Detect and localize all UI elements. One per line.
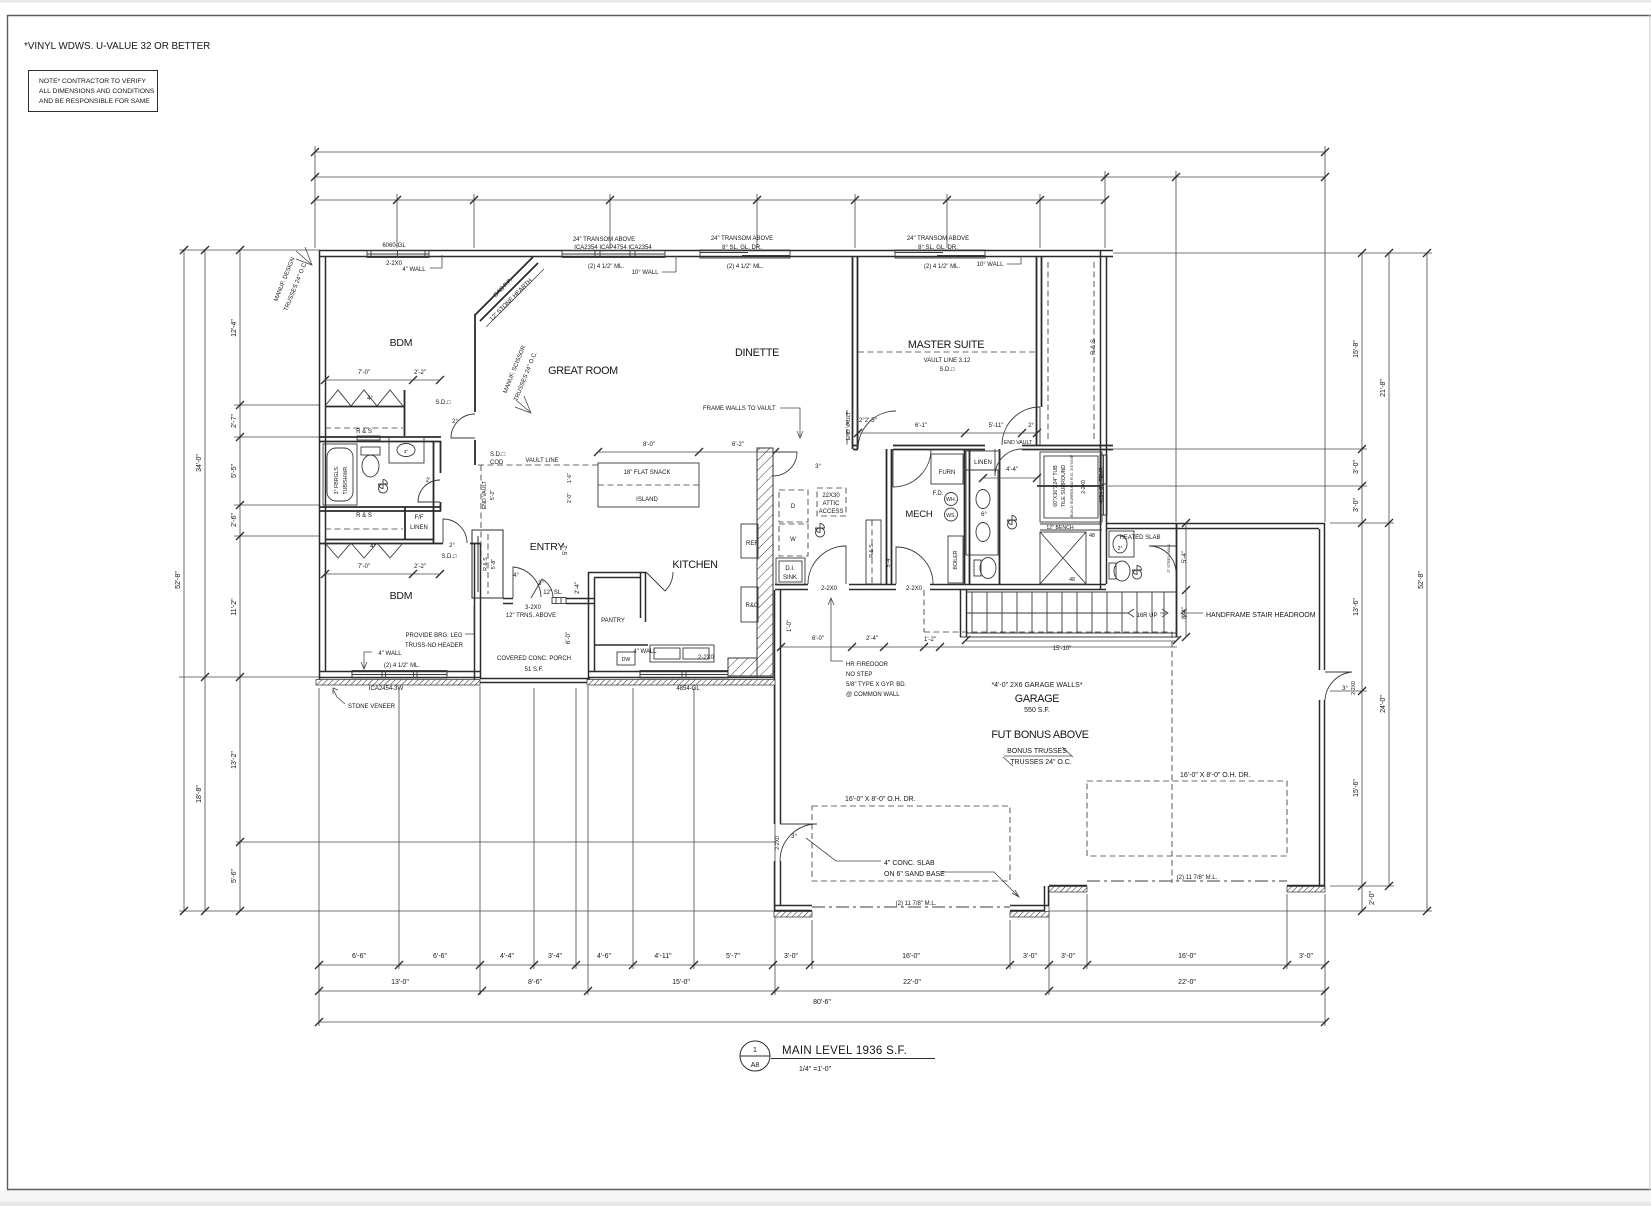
svg-text:12" TRNS. ABOVE: 12" TRNS. ABOVE	[506, 613, 556, 619]
heated slab door	[1149, 546, 1176, 573]
svg-text:ATTIC: ATTIC	[823, 501, 841, 507]
svg-text:AND BE RESPONSIBLE FOR SAME: AND BE RESPONSIBLE FOR SAME	[39, 98, 150, 105]
svg-text:2'-0": 2'-0"	[1369, 891, 1376, 905]
master tub	[1040, 452, 1102, 522]
svg-text:12'-4": 12'-4"	[231, 319, 238, 337]
mech furnace	[931, 454, 963, 484]
svg-text:KITCHEN: KITCHEN	[672, 559, 717, 571]
svg-text:8° SL. GL. DR.: 8° SL. GL. DR.	[722, 245, 762, 251]
svg-text:STONE VENEER: STONE VENEER	[348, 704, 396, 710]
svg-text:3'-4": 3'-4"	[548, 953, 562, 960]
master suite east wall (to closet)	[1037, 257, 1042, 446]
svg-text:D.I.: D.I.	[785, 566, 795, 572]
stairs east edge	[1176, 590, 1178, 637]
svg-text:51 S.F.: 51 S.F.	[525, 667, 544, 673]
svg-text:4'-4": 4'-4"	[1006, 467, 1018, 473]
master shower	[1040, 532, 1086, 584]
svg-text:4854-GL: 4854-GL	[676, 686, 700, 692]
svg-text:3-2X0: 3-2X0	[525, 605, 542, 611]
master vault line	[858, 351, 1037, 353]
svg-text:34'-0": 34'-0"	[196, 454, 203, 472]
svg-text:WS.: WS.	[946, 513, 956, 519]
entry closet	[472, 530, 503, 598]
svg-text:W: W	[790, 537, 796, 543]
svg-text:2°: 2°	[1118, 546, 1123, 552]
svg-text:ALL DIMENSIONS AND CONDITIONS: ALL DIMENSIONS AND CONDITIONS	[39, 88, 155, 95]
svg-text:2'-4": 2'-4"	[575, 582, 581, 594]
svg-text:15'-0": 15'-0"	[672, 979, 690, 986]
svg-text:ISLAND: ISLAND	[636, 497, 658, 503]
porch slab front edge	[480, 679, 590, 683]
svg-text:1'-2": 1'-2"	[924, 637, 936, 643]
bdm1 window 6060-GL	[367, 251, 429, 258]
fireplace diagonal	[475, 257, 538, 321]
kitchen hall door (dinette to hall)	[773, 452, 797, 476]
kitchen south wall	[588, 672, 775, 678]
truss dir symbol garage	[1003, 747, 1073, 766]
provide brg leader	[465, 606, 474, 634]
dim labels: bottom rows	[352, 953, 1313, 1006]
svg-text:BONUS TRUSSES: BONUS TRUSSES	[1007, 748, 1067, 755]
svg-text:5'-2": 5'-2"	[490, 490, 496, 500]
svg-text:2° STEEL WALL: 2° STEEL WALL	[1166, 543, 1171, 573]
svg-text:MASTER SUITE: MASTER SUITE	[908, 339, 984, 351]
master suite west wall	[853, 257, 858, 449]
svg-text:LINEN: LINEN	[410, 525, 428, 531]
svg-text:PANTRY: PANTRY	[601, 618, 625, 624]
svg-text:3°: 3°	[1342, 686, 1348, 692]
svg-text:2-2X0: 2-2X0	[698, 655, 715, 661]
garage mid stub step	[1010, 886, 1049, 911]
master closet door	[1002, 407, 1040, 445]
svg-text:18" FLAT SNACK: 18" FLAT SNACK	[624, 470, 671, 476]
great room vault line	[478, 464, 598, 466]
svg-text:END VAULT: END VAULT	[846, 411, 852, 440]
mech doors on common wall	[808, 546, 846, 584]
bdm1 / great room wall	[474, 314, 476, 412]
svg-text:R & S: R & S	[483, 557, 489, 571]
svg-text:6'-6": 6'-6"	[433, 953, 447, 960]
svg-text:3°: 3°	[404, 449, 409, 455]
svg-text:GARAGE: GARAGE	[1015, 693, 1059, 705]
svg-text:16R UP: 16R UP	[1136, 613, 1157, 619]
pantry door	[646, 572, 673, 591]
svg-text:HEATED SLAB: HEATED SLAB	[1120, 535, 1161, 541]
great room triple window	[562, 251, 665, 258]
svg-text:3'-0": 3'-0"	[1353, 460, 1360, 474]
entry south wall w/ door opening	[503, 599, 594, 604]
kitchen counters: REF / R&O	[741, 524, 758, 558]
contractor note box	[29, 71, 158, 112]
svg-text:*4'-0" 2X6 GARAGE WALLS*: *4'-0" 2X6 GARAGE WALLS*	[991, 682, 1082, 689]
4" wall leader bdm1 top	[430, 255, 442, 268]
master wc toilet	[980, 558, 996, 579]
bath1 tub	[323, 444, 357, 505]
master suite door	[858, 411, 896, 449]
svg-text:5'-2": 5'-2"	[563, 543, 569, 555]
svg-text:NOTE* CONTRACTOR TO VERIFY: NOTE* CONTRACTOR TO VERIFY	[39, 78, 147, 85]
svg-text:FRAME WALLS TO VAULT: FRAME WALLS TO VAULT	[703, 406, 776, 412]
svg-text:1'-6": 1'-6"	[567, 473, 573, 483]
heated slab shower pan + toilet	[1109, 531, 1134, 557]
svg-text:BOILER: BOILER	[953, 550, 959, 569]
stone veneer arrow	[333, 688, 345, 704]
svg-text:2'-2": 2'-2"	[414, 370, 426, 376]
svg-text:TRUSSES 24" O.C.: TRUSSES 24" O.C.	[1010, 759, 1072, 766]
bdm2 bifold closet doors	[325, 543, 403, 558]
R&S hall closet box	[866, 520, 881, 584]
svg-text:5'-5": 5'-5"	[231, 464, 238, 478]
svg-text:SINK: SINK	[783, 575, 797, 581]
f/f linen closet	[405, 441, 434, 543]
svg-text:R & S: R & S	[356, 513, 372, 519]
svg-text:12" SL.: 12" SL.	[543, 590, 563, 596]
svg-text:5'-8": 5'-8"	[491, 559, 497, 569]
svg-text:2': 2'	[426, 478, 430, 484]
svg-text:(2) 11 7/8" M.L.: (2) 11 7/8" M.L.	[896, 901, 937, 907]
left dim lines	[183, 250, 185, 911]
svg-text:(2) 4 1/2" ML.: (2) 4 1/2" ML.	[384, 663, 420, 669]
west wall	[320, 250, 326, 684]
svg-text:16'-0": 16'-0"	[902, 953, 920, 960]
4" wall bdm2 leader w/ arrow	[361, 652, 372, 669]
bdm1 bifold closet doors	[325, 390, 403, 406]
svg-text:3'-0": 3'-0"	[1353, 498, 1360, 512]
svg-text:ENTRY: ENTRY	[530, 541, 565, 553]
svg-text:52'-8": 52'-8"	[1418, 571, 1425, 589]
D/W appliances	[779, 490, 808, 522]
svg-text:13'-2": 13'-2"	[231, 751, 238, 769]
garage front left jog	[775, 906, 812, 911]
svg-text:FURN: FURN	[939, 470, 956, 476]
svg-text:2'-7": 2'-7"	[231, 414, 238, 428]
svg-text:48: 48	[1089, 533, 1095, 539]
svg-text:4054-GL-TEMP.: 4054-GL-TEMP.	[1099, 466, 1105, 503]
svg-text:2-2X0: 2-2X0	[906, 586, 923, 592]
svg-text:24" TRANSOM ABOVE: 24" TRANSOM ABOVE	[573, 237, 635, 243]
bench line	[1040, 524, 1102, 530]
svg-text:3°: 3°	[538, 581, 544, 587]
pantry top + east walls	[588, 572, 648, 645]
svg-text:4" WALL: 4" WALL	[402, 267, 426, 273]
svg-text:6060-GL: 6060-GL	[382, 243, 406, 249]
bath south wall	[319, 507, 441, 511]
svg-text:4" WALL: 4" WALL	[378, 651, 402, 657]
svg-text:15'-6": 15'-6"	[1353, 779, 1360, 797]
svg-text:TILE SURROUND: TILE SURROUND	[1061, 465, 1067, 508]
garage north wall	[1106, 524, 1325, 529]
rotated small texts	[273, 257, 1357, 850]
svg-text:5'-11": 5'-11"	[989, 423, 1004, 429]
svg-text:4" WALL: 4" WALL	[633, 649, 657, 655]
svg-text:@ COMMON WALL: @ COMMON WALL	[846, 692, 900, 698]
svg-text:BUILD SURROUND R.O. 3'4"X5'8": BUILD SURROUND R.O. 3'4"X5'8"	[1069, 454, 1074, 517]
bdm1 closet	[325, 406, 405, 408]
bottom extension verticals	[318, 688, 320, 1026]
svg-text:5/8" TYPE X GYP. BD.: 5/8" TYPE X GYP. BD.	[846, 682, 907, 688]
dim labels: left cols (rotated)	[175, 319, 238, 883]
left wing south wall	[319, 672, 480, 678]
svg-text:1: 1	[753, 1047, 757, 1054]
svg-text:8'-0": 8'-0"	[643, 442, 655, 448]
svg-text:6'-1": 6'-1"	[915, 423, 927, 429]
svg-text:7'-0": 7'-0"	[358, 370, 370, 376]
bath mid wall	[1037, 485, 1100, 487]
svg-text:1/4" =1'-0": 1/4" =1'-0"	[799, 1066, 832, 1073]
svg-text:8'-4": 8'-4"	[1182, 607, 1188, 619]
svg-text:R & S: R & S	[356, 429, 372, 435]
gas fp hearth line	[486, 269, 544, 327]
svg-text:4°: 4°	[370, 544, 376, 550]
svg-text:ACCESS: ACCESS	[819, 509, 844, 515]
svg-text:18'-8": 18'-8"	[196, 785, 203, 803]
svg-text:3°: 3°	[791, 834, 797, 840]
svg-text:24'-0": 24'-0"	[1380, 695, 1387, 713]
svg-text:4'-11": 4'-11"	[654, 953, 672, 960]
svg-text:7'-0": 7'-0"	[358, 564, 370, 570]
bonus outline	[924, 590, 1172, 883]
svg-text:HANDFRAME STAIR HEADROOM: HANDFRAME STAIR HEADROOM	[1206, 612, 1316, 619]
svg-text:COVERED CONC. PORCH: COVERED CONC. PORCH	[497, 656, 571, 662]
manuf scissor truss arrow	[515, 396, 531, 413]
svg-text:REF: REF	[746, 541, 758, 547]
dinette sliding door	[700, 250, 790, 258]
svg-text:BDM: BDM	[390, 590, 413, 602]
svg-text:52'-8": 52'-8"	[175, 571, 182, 589]
entry front doors	[513, 567, 553, 598]
svg-text:11'-2": 11'-2"	[231, 598, 238, 616]
pantry / kitchen west wall	[589, 572, 595, 684]
svg-text:2'-6": 2'-6"	[231, 513, 238, 527]
slab dash-dot lines	[812, 881, 1287, 907]
svg-text:2-2X0: 2-2X0	[1351, 681, 1357, 695]
svg-text:60"X36"X24" TUB: 60"X36"X24" TUB	[1053, 465, 1059, 507]
east exterior wall (master suite/bath)	[1101, 250, 1107, 590]
svg-text:(2) 4 1/2" ML.: (2) 4 1/2" ML.	[588, 264, 624, 270]
svg-text:2°: 2°	[449, 543, 455, 549]
mech west wall	[887, 449, 892, 584]
end vault dash	[480, 465, 482, 567]
4" conc slab leaders	[806, 838, 881, 861]
svg-text:(2) 11 7/8" M.L.: (2) 11 7/8" M.L.	[1177, 875, 1218, 881]
svg-text:16'-0" X 8'-0" O.H. DR.: 16'-0" X 8'-0" O.H. DR.	[845, 796, 916, 803]
svg-text:10° WALL: 10° WALL	[977, 262, 1005, 268]
hall west wall / bath east	[440, 441, 442, 511]
garage right-bay front stubs	[1049, 886, 1325, 891]
frame walls to vault leader	[780, 408, 803, 438]
left extension horizontals	[179, 249, 319, 251]
svg-text:WH.: WH.	[946, 497, 956, 503]
attic access	[817, 488, 846, 516]
svg-text:2-2X0: 2-2X0	[821, 586, 838, 592]
svg-text:2-2X0: 2-2X0	[1081, 480, 1087, 494]
svg-text:13'-6": 13'-6"	[1353, 598, 1360, 616]
svg-text:NO STEP: NO STEP	[846, 672, 872, 678]
top dim lines	[315, 151, 1325, 153]
svg-text:LINEN: LINEN	[974, 460, 992, 466]
svg-text:4'-4": 4'-4"	[500, 953, 514, 960]
svg-text:22'-0": 22'-0"	[903, 979, 921, 986]
svg-text:24" TRANSOM ABOVE: 24" TRANSOM ABOVE	[907, 236, 969, 242]
manuf design truss arrows bdm1	[296, 247, 312, 265]
svg-text:2°: 2°	[452, 419, 458, 425]
stone veneer sills	[316, 680, 1325, 918]
svg-text:4" CONC. SLAB: 4" CONC. SLAB	[884, 860, 935, 867]
svg-text:S.D.□: S.D.□	[490, 452, 506, 458]
svg-text:3'-0": 3'-0"	[784, 953, 798, 960]
svg-text:8'-6": 8'-6"	[528, 979, 542, 986]
svg-text:1'-0": 1'-0"	[787, 620, 793, 632]
10 wall leader master	[1007, 256, 1021, 264]
handframe leader	[1181, 609, 1203, 617]
garage rear door (east)	[1325, 672, 1352, 700]
closet rods	[325, 427, 403, 429]
kitchen south window 4854-GL	[640, 671, 728, 679]
svg-text:4°: 4°	[367, 396, 373, 402]
svg-text:F/F: F/F	[415, 515, 424, 521]
bath door	[418, 480, 440, 502]
10 wall leader greatroom	[662, 256, 676, 272]
island	[598, 463, 699, 507]
svg-text:80'-6": 80'-6"	[813, 999, 831, 1006]
svg-text:A8: A8	[751, 1062, 760, 1069]
D.I. SINK box	[776, 558, 805, 585]
svg-text:22'-0": 22'-0"	[1178, 979, 1196, 986]
svg-text:5'-7": 5'-7"	[726, 953, 740, 960]
svg-text:3° FBRGLS.: 3° FBRGLS.	[334, 466, 340, 495]
svg-text:FUT BONUS ABOVE: FUT BONUS ABOVE	[991, 729, 1088, 741]
svg-text:16'-0" X 8'-0" O.H. DR.: 16'-0" X 8'-0" O.H. DR.	[1180, 772, 1251, 779]
svg-text:48: 48	[1069, 577, 1075, 583]
svg-text:GREAT ROOM: GREAT ROOM	[548, 365, 618, 377]
garage doors	[812, 806, 1010, 881]
garage west wall	[775, 590, 781, 911]
stair west wall	[961, 590, 967, 637]
svg-text:5'-6": 5'-6"	[231, 869, 238, 883]
svg-text:8° SL. GL. DR.: 8° SL. GL. DR.	[918, 245, 958, 251]
svg-text:5'-4": 5'-4"	[1182, 551, 1188, 563]
svg-text:S.D.□: S.D.□	[441, 554, 457, 560]
svg-text:6'-0": 6'-0"	[566, 632, 572, 644]
svg-text:12" BENCH: 12" BENCH	[1046, 525, 1073, 531]
svg-text:END VAULT: END VAULT	[482, 480, 488, 509]
svg-text:BDM: BDM	[390, 337, 413, 349]
svg-text:2-2X0: 2-2X0	[386, 261, 403, 267]
svg-text:ICA2454-3W: ICA2454-3W	[369, 686, 404, 692]
bdm2 south windows ICA2454-3W	[352, 671, 447, 679]
hr firedoor arrow	[828, 598, 843, 661]
16R UP arrow	[1160, 609, 1168, 617]
svg-text:4°: 4°	[513, 573, 519, 579]
svg-text:24" TRANSOM ABOVE: 24" TRANSOM ABOVE	[711, 236, 773, 242]
floor drain symbols	[379, 480, 388, 493]
svg-text:10° WALL: 10° WALL	[632, 270, 660, 276]
svg-text:6'-2": 6'-2"	[732, 442, 744, 448]
svg-text:S.D.□: S.D.□	[435, 400, 451, 406]
svg-text:16'-0": 16'-0"	[1178, 953, 1196, 960]
svg-text:21'-8": 21'-8"	[1380, 379, 1387, 397]
bath1 toilet	[361, 447, 380, 455]
master sliding door	[895, 250, 985, 258]
svg-text:3°: 3°	[815, 464, 821, 470]
svg-text:3'-0": 3'-0"	[1023, 953, 1037, 960]
kitchen sink at south wall	[650, 645, 714, 662]
svg-text:R & S: R & S	[1091, 339, 1097, 355]
island mid line	[598, 484, 699, 486]
entry sidelite mullions	[556, 598, 561, 604]
svg-text:MAIN LEVEL 1936 S.F.: MAIN LEVEL 1936 S.F.	[782, 1045, 907, 1057]
kitchen hatched wall	[728, 448, 773, 676]
garage man door (west)	[780, 824, 817, 861]
dw box	[617, 652, 635, 665]
svg-text:22X30: 22X30	[822, 493, 840, 499]
master suite south wall w/ openings	[853, 446, 1113, 450]
bath vanity wall	[999, 449, 1001, 584]
svg-text:*VINYL WDWS. U-VALUE 32 OR BET: *VINYL WDWS. U-VALUE 32 OR BETTER	[24, 41, 210, 52]
svg-text:6'-0": 6'-0"	[812, 636, 824, 642]
svg-text:DW: DW	[622, 657, 631, 663]
svg-text:5'-4": 5'-4"	[886, 557, 892, 567]
heated slab room west wall	[1176, 523, 1178, 590]
svg-text:END VAULT: END VAULT	[1004, 440, 1033, 446]
north wall	[319, 251, 1113, 257]
right extension horizontals	[1113, 252, 1432, 254]
mech east wall	[965, 449, 970, 584]
garage east wall w/ rear door opening	[1320, 523, 1325, 890]
svg-text:R&O: R&O	[745, 603, 758, 609]
bdm2 east / porch west wall	[475, 543, 481, 684]
svg-text:VAULT LINE: VAULT LINE	[525, 458, 558, 464]
svg-text:2'-2": 2'-2"	[414, 564, 426, 570]
bdm1 hall door	[451, 414, 475, 438]
svg-text:TRUSS-NO HEADER: TRUSS-NO HEADER	[405, 643, 464, 649]
svg-text:(2) 4 1/2" ML.: (2) 4 1/2" ML.	[727, 264, 763, 270]
master hall door	[893, 449, 931, 487]
svg-text:2'-4": 2'-4"	[866, 636, 878, 642]
bdm2 closet band	[319, 540, 480, 544]
svg-text:13'-0": 13'-0"	[391, 979, 409, 986]
svg-text:550 S.F.: 550 S.F.	[1024, 707, 1050, 714]
linen + vanity master bath	[966, 451, 1000, 470]
svg-text:6'-6": 6'-6"	[352, 953, 366, 960]
top extension verticals	[314, 146, 316, 248]
common wall house/garage	[775, 585, 1106, 590]
bath wc door	[995, 449, 1022, 476]
svg-text:15'-8": 15'-8"	[1353, 340, 1360, 358]
svg-text:TUB/SHWR.: TUB/SHWR.	[343, 465, 349, 494]
svg-text:15'-10": 15'-10"	[1053, 646, 1072, 652]
svg-text:6°: 6°	[981, 512, 987, 518]
interior dim lines	[325, 379, 440, 381]
stairs dim	[966, 640, 1177, 642]
svg-text:R & S: R & S	[869, 544, 875, 558]
dim labels: right cols (rotated)	[1353, 340, 1425, 905]
bdm2 hall door	[443, 519, 467, 543]
svg-text:D: D	[791, 504, 796, 510]
svg-text:MECH: MECH	[905, 509, 933, 520]
svg-text:4'-6": 4'-6"	[597, 953, 611, 960]
svg-text:PROVIDE BRG. LEG: PROVIDE BRG. LEG	[405, 633, 462, 639]
svg-text:2'-0": 2'-0"	[567, 493, 573, 503]
svg-text:COD: COD	[490, 460, 504, 466]
bottom dim lines	[319, 964, 1325, 966]
svg-text:HR FIREDOOR: HR FIREDOOR	[846, 662, 889, 668]
dimension tick marks	[180, 148, 1431, 1026]
svg-text:3'-0": 3'-0"	[1061, 953, 1075, 960]
svg-text:3'-0": 3'-0"	[1299, 953, 1313, 960]
svg-text:S.D.□: S.D.□	[939, 367, 955, 373]
right dim lines	[1361, 253, 1363, 911]
